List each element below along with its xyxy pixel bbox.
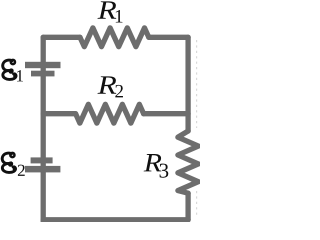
label R1	[98, 1, 123, 22]
wire: right upper segment	[185, 37, 190, 131]
label R2	[98, 76, 123, 97]
wire: middle branch left lead (junction at left wire)	[43, 111, 75, 116]
label R3	[144, 154, 169, 178]
resistor R3	[178, 131, 198, 193]
wire: middle branch right lead (junction at right wire)	[144, 111, 189, 116]
label emf E1 (script E with subscript 1)	[3, 60, 23, 82]
resistor R1	[80, 28, 149, 47]
wire: bottom segment	[43, 217, 188, 222]
wire: top right segment	[149, 35, 188, 40]
battery E2 (emf source, short plate top / long plate bottom)	[25, 157, 60, 172]
label emf E2 (script E with subscript 2)	[2, 153, 25, 176]
wire: left branch (node A top-left to bottom-left)	[41, 37, 46, 222]
battery E1 (emf source, long plate top / short plate bottom)	[25, 62, 61, 77]
wire: right lower segment	[185, 193, 190, 220]
resistor R2	[76, 104, 144, 123]
wire: top left segment	[43, 35, 80, 40]
